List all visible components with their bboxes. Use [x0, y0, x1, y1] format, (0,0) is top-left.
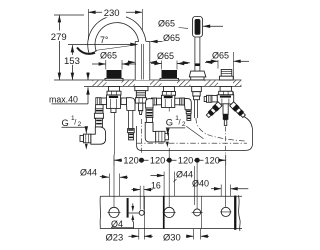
dim arrows hand shower rosette [183, 62, 190, 64]
svg-text:Ø65: Ø65 [157, 51, 174, 61]
dim O65 spout column [128, 33, 181, 62]
thin diagonal routing line [186, 126, 203, 139]
svg-text:120: 120 [178, 156, 193, 166]
svg-text:Ø65: Ø65 [158, 19, 175, 29]
dim O44 hole3 [151, 170, 194, 197]
dim O30 [163, 229, 209, 243]
deck bottom line [84, 86, 242, 88]
hose dash-dot routing [137, 92, 247, 143]
svg-text:max.40: max.40 [49, 95, 78, 105]
dim O65 diverter [206, 51, 249, 79]
O4 pin detail [111, 203, 144, 228]
handle 1 (black knob) [105, 70, 123, 80]
spout tube arc [88, 15, 146, 53]
G1/2 label left [62, 115, 87, 133]
valve 2 below deck [151, 87, 184, 108]
dim O65 hand shower [158, 19, 223, 29]
svg-text:G: G [62, 117, 69, 128]
diverter knob [219, 70, 233, 81]
centerlines elevation to plan [114, 108, 226, 209]
svg-text:Ø30: Ø30 [163, 231, 181, 242]
dim O23 [106, 229, 153, 243]
svg-text:Ø65: Ø65 [100, 51, 117, 61]
hand shower shank and hose [192, 87, 202, 119]
svg-text:7°: 7° [100, 35, 108, 45]
G1/2 label right [166, 115, 186, 136]
svg-text:Ø65: Ø65 [163, 33, 180, 43]
spout column [135, 42, 150, 81]
svg-text:2: 2 [182, 121, 186, 128]
svg-text:Ø44: Ø44 [80, 168, 97, 178]
svg-text:120: 120 [205, 156, 220, 166]
deck hatching [93, 80, 242, 86]
svg-text:153: 153 [64, 56, 80, 67]
supply arrow below right union [166, 142, 169, 148]
supply arrow below left union [85, 144, 88, 150]
valve2 right elbow hose nipple [185, 99, 192, 121]
dim 279 [50, 15, 84, 80]
svg-text:120: 120 [123, 156, 138, 166]
plan strip outline [100, 195, 242, 231]
plan holes [108, 207, 232, 217]
dim O44 hole1 [80, 168, 128, 197]
hose solid loop [137, 117, 253, 151]
7 degree angle [77, 35, 136, 54]
svg-text:120: 120 [150, 156, 165, 166]
dim O65 handle1 [92, 51, 136, 70]
diverter below deck [204, 87, 246, 126]
max.40 label [49, 72, 88, 105]
valve 1 below deck [96, 87, 121, 113]
valve2 left elbow chain to G1/2 [145, 99, 168, 142]
deck top surface line [54, 79, 242, 81]
handle 2 (black knob) [160, 70, 179, 80]
svg-text:Ø4: Ø4 [111, 219, 123, 229]
dim 153 [63, 44, 138, 79]
valve1 right elbow and drop pipe [121, 98, 135, 140]
svg-text:279: 279 [51, 32, 67, 43]
dim 16 [132, 181, 161, 210]
dim 230 [88, 7, 142, 40]
svg-text:Ø44: Ø44 [176, 170, 193, 180]
svg-text:G: G [166, 117, 173, 128]
dim O65 handle2 [151, 51, 188, 69]
hand shower [189, 17, 206, 80]
svg-text:16: 16 [151, 181, 161, 191]
svg-text:Ø23: Ø23 [106, 231, 124, 242]
svg-text:Ø65: Ø65 [212, 51, 229, 61]
dim chain 120x4 [114, 155, 226, 166]
svg-text:230: 230 [104, 8, 120, 19]
dim O40 [192, 179, 248, 197]
valve1 left elbow chain to G1/2 [80, 105, 106, 145]
svg-text:Ø40: Ø40 [192, 179, 209, 189]
spout shank below deck [135, 87, 148, 115]
